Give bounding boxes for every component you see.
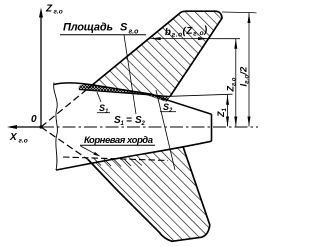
root chord line upper xyxy=(79,90,170,97)
dimension Z_go xyxy=(234,39,237,127)
svg-text:г.о: г.о xyxy=(19,138,28,145)
label Z_go xyxy=(226,77,238,92)
lower panel outline xyxy=(88,147,210,241)
upper panel outline xyxy=(88,11,222,96)
label S1 = S2 xyxy=(114,115,146,127)
tail cone base xyxy=(211,114,213,141)
label Z_1 xyxy=(216,108,228,119)
svg-text:0: 0 xyxy=(31,114,37,125)
S2 dense area xyxy=(145,94,170,101)
label S2 xyxy=(160,102,176,114)
lower root chord dashed xyxy=(63,157,168,161)
label l_go/2 xyxy=(239,66,251,86)
svg-text:Корневая хорда: Корневая хорда xyxy=(84,135,153,146)
upper panel hatch xyxy=(88,11,222,95)
cross ticks at lower root chord xyxy=(93,158,142,167)
label b_go(Z_go) with chord dimension xyxy=(151,25,241,40)
label S1 with leader xyxy=(97,92,110,115)
svg-text:г.о: г.о xyxy=(54,9,63,16)
svg-text:2: 2 xyxy=(141,121,146,127)
label Ploshchad S_g.o xyxy=(60,22,146,36)
svg-text:Z: Z xyxy=(45,4,53,15)
leader through S2 into lower panel xyxy=(156,90,175,170)
svg-text:=: = xyxy=(126,115,132,126)
axis X_g.o xyxy=(7,125,41,129)
lower panel hatch xyxy=(88,147,210,241)
svg-text:S: S xyxy=(120,22,128,34)
lower leading edge extension dashed xyxy=(41,127,88,160)
S1 dense area xyxy=(79,85,148,94)
fuselage upper contour xyxy=(54,83,212,114)
centerline xyxy=(41,126,258,128)
axis Z_g.o xyxy=(39,8,43,128)
svg-text:Площадь: Площадь xyxy=(63,22,113,34)
fuselage break wavy line xyxy=(54,83,58,171)
svg-text:X: X xyxy=(9,132,18,143)
leader from label to S1 band xyxy=(124,35,136,114)
fuselage lower contour xyxy=(56,141,212,170)
dimension L_go/2 xyxy=(222,12,257,127)
label Kornevaya khorda with arrow leader xyxy=(80,135,155,156)
svg-text:2: 2 xyxy=(168,108,173,114)
label Z_g.o xyxy=(45,4,63,16)
leading edge extension dashed xyxy=(41,89,88,128)
origin 0 xyxy=(31,114,43,129)
label X_g.o xyxy=(9,132,28,145)
dimension Z_1 xyxy=(170,94,233,126)
